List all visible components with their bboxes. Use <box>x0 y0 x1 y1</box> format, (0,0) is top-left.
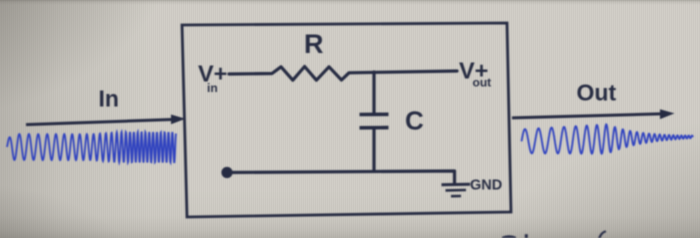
svg-text:C: C <box>405 106 424 136</box>
svg-text:Out: Out <box>577 80 617 106</box>
svg-text:GND: GND <box>470 178 502 194</box>
svg-text:In: In <box>99 86 119 112</box>
svg-text:R: R <box>304 29 324 59</box>
svg-text:in: in <box>207 81 218 95</box>
svg-text:out: out <box>473 76 492 90</box>
